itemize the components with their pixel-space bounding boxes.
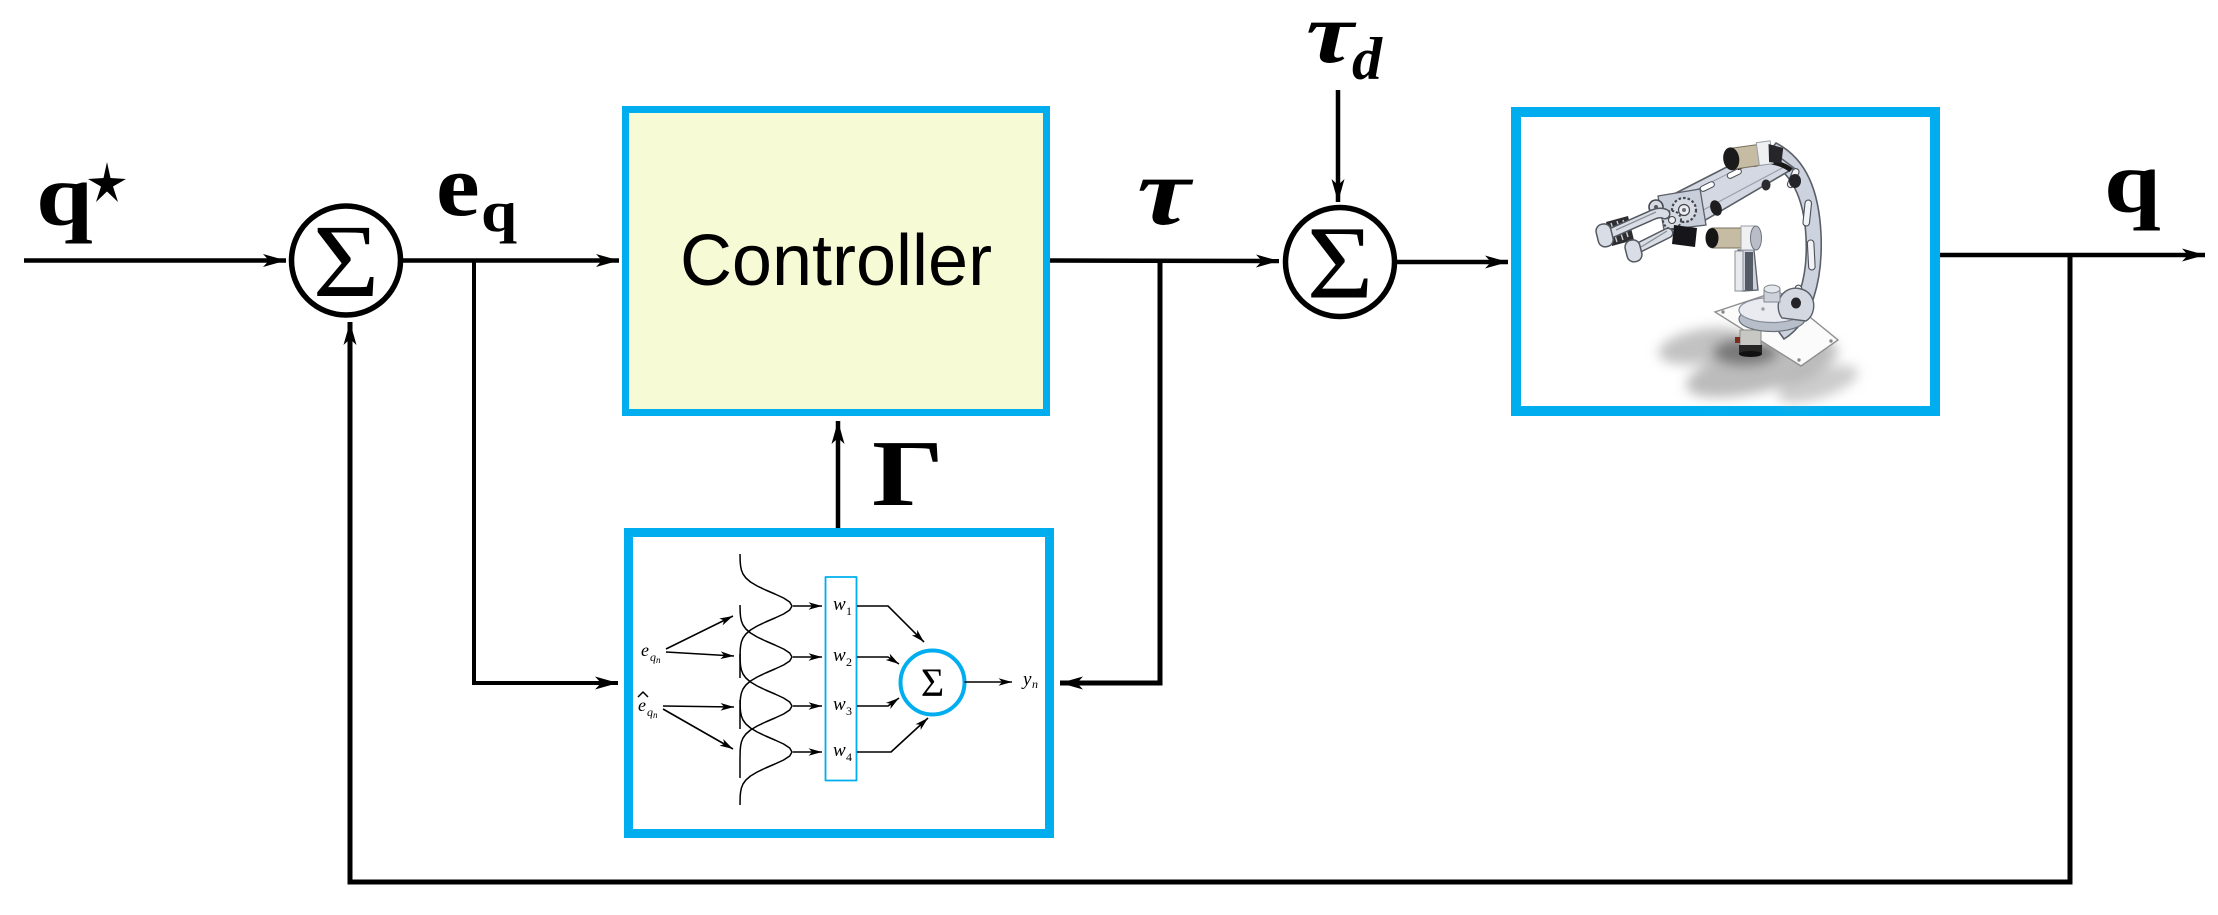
svg-text:e: e [436,138,480,235]
wire: tau junction drop down into neural network right side [1060,261,1160,684]
svg-text:w: w [833,740,846,761]
svg-text:Σ: Σ [313,204,380,319]
gripper lower finger [1634,233,1668,250]
block: neural network box [629,533,1050,834]
wire: w2 to sum node [857,657,899,664]
summer S2 circle [1286,208,1395,317]
upper arm slots [1699,181,1715,193]
wire: e_q junction drop down to neural network block [474,261,618,684]
svg-text:q: q [481,180,517,244]
wire: bell 1 to weight w1 [793,605,822,607]
black strap on upper arm [1737,161,1791,170]
C-arm slots [1807,240,1815,270]
robot vertical link [1738,250,1758,291]
svg-text:d: d [1352,26,1383,92]
svg-text:τ: τ [1137,138,1193,245]
block: Controller [626,110,1047,413]
gripper wrist plate [1658,189,1706,230]
robot top motor [1722,139,1786,171]
svg-text:Controller: Controller [680,221,992,301]
svg-text:Σ: Σ [1307,205,1374,320]
robot base plate [1715,291,1838,366]
wire: w1 to sum node [857,606,924,642]
star superscript of q* [88,162,126,202]
plate screw holes [1721,310,1724,313]
wire: sum node to output y_n [965,681,1013,683]
wire: summer S2 to robot plant block [1397,260,1508,265]
wire: Gamma arrow from neural network up into Controller [836,421,841,528]
gripper dark striped finger [1606,216,1634,246]
membership function bell 2 [740,605,792,729]
block: robot plant box [1516,112,1935,411]
wire: feedback from output junction down, across bottom, up into summer S1 [350,255,2070,882]
wire: reference input q* into summer S1 [24,258,286,263]
wire: e-hat_qn to membership function 3 [663,706,734,707]
svg-text:w: w [833,645,846,666]
sum node circle in neural network [901,651,965,715]
robot pedestal below plate [1740,330,1761,347]
svg-text:1: 1 [846,604,852,618]
robot hub spindle above disc [1764,289,1780,302]
wire: e_qn to membership function 2 [666,652,734,656]
ROBOT [1595,139,1863,410]
wire: bell 4 to weight w4 [793,751,822,753]
svg-text:n: n [656,655,661,665]
NNINSIDE [638,554,1038,805]
wire: plant output q with pickoff [1940,253,2205,258]
gripper gear large [1672,198,1696,222]
robot mid motor [1712,228,1745,248]
robot upper arm to gripper [1674,147,1794,225]
gripper upper finger [1607,213,1665,235]
svg-text:w: w [833,594,846,615]
svg-text:y: y [1021,669,1032,690]
svg-text:Σ: Σ [921,660,944,705]
svg-text:3: 3 [846,704,852,718]
robot C-shaped arm [1764,143,1821,339]
svg-text:n: n [653,710,658,720]
svg-text:2: 2 [846,655,852,669]
membership function bell 4 [740,700,792,805]
wire: Controller output tau to summer S2 [1050,258,1279,263]
membership function bell 1 [740,554,792,678]
gripper gear small [1663,211,1681,229]
wire: bell 2 to weight w2 [793,656,822,658]
wire: e-hat_qn to membership function 4 [663,709,733,749]
svg-text:q: q [2104,134,2161,232]
summer S1 circle [292,206,401,315]
svg-text:w: w [833,694,846,715]
elbow joint dark oval [1708,199,1724,218]
gripper servo black box [1672,225,1697,247]
svg-text:τ: τ [1306,0,1357,81]
weights column box [826,577,857,781]
wire: e_qn to membership function 1 [666,616,733,649]
gripper pulley [1649,200,1663,214]
wire: tau_d arrow into summer S2 [1336,90,1341,202]
wire: summer S1 to Controller, label e_q [403,258,619,263]
bolt on arm near C-top [1789,174,1801,188]
membership function bell 3 [740,654,792,778]
svg-text:e: e [638,695,646,715]
wire: bell 3 to weight w3 [793,705,822,707]
wire: w4 to sum node [857,718,928,752]
robot base disc [1739,307,1805,332]
svg-text:q: q [36,147,93,245]
svg-text:4: 4 [846,750,852,764]
svg-text:e: e [641,640,649,660]
robot bottom bracket of C-arm [1778,288,1814,321]
gripper linkage rods [1616,212,1667,247]
wire: w3 to sum node [857,698,899,706]
svg-text:Γ: Γ [872,422,944,526]
svg-text:n: n [1032,677,1038,691]
robot shadow [1656,321,1863,410]
small knob mid arm [1762,180,1771,191]
